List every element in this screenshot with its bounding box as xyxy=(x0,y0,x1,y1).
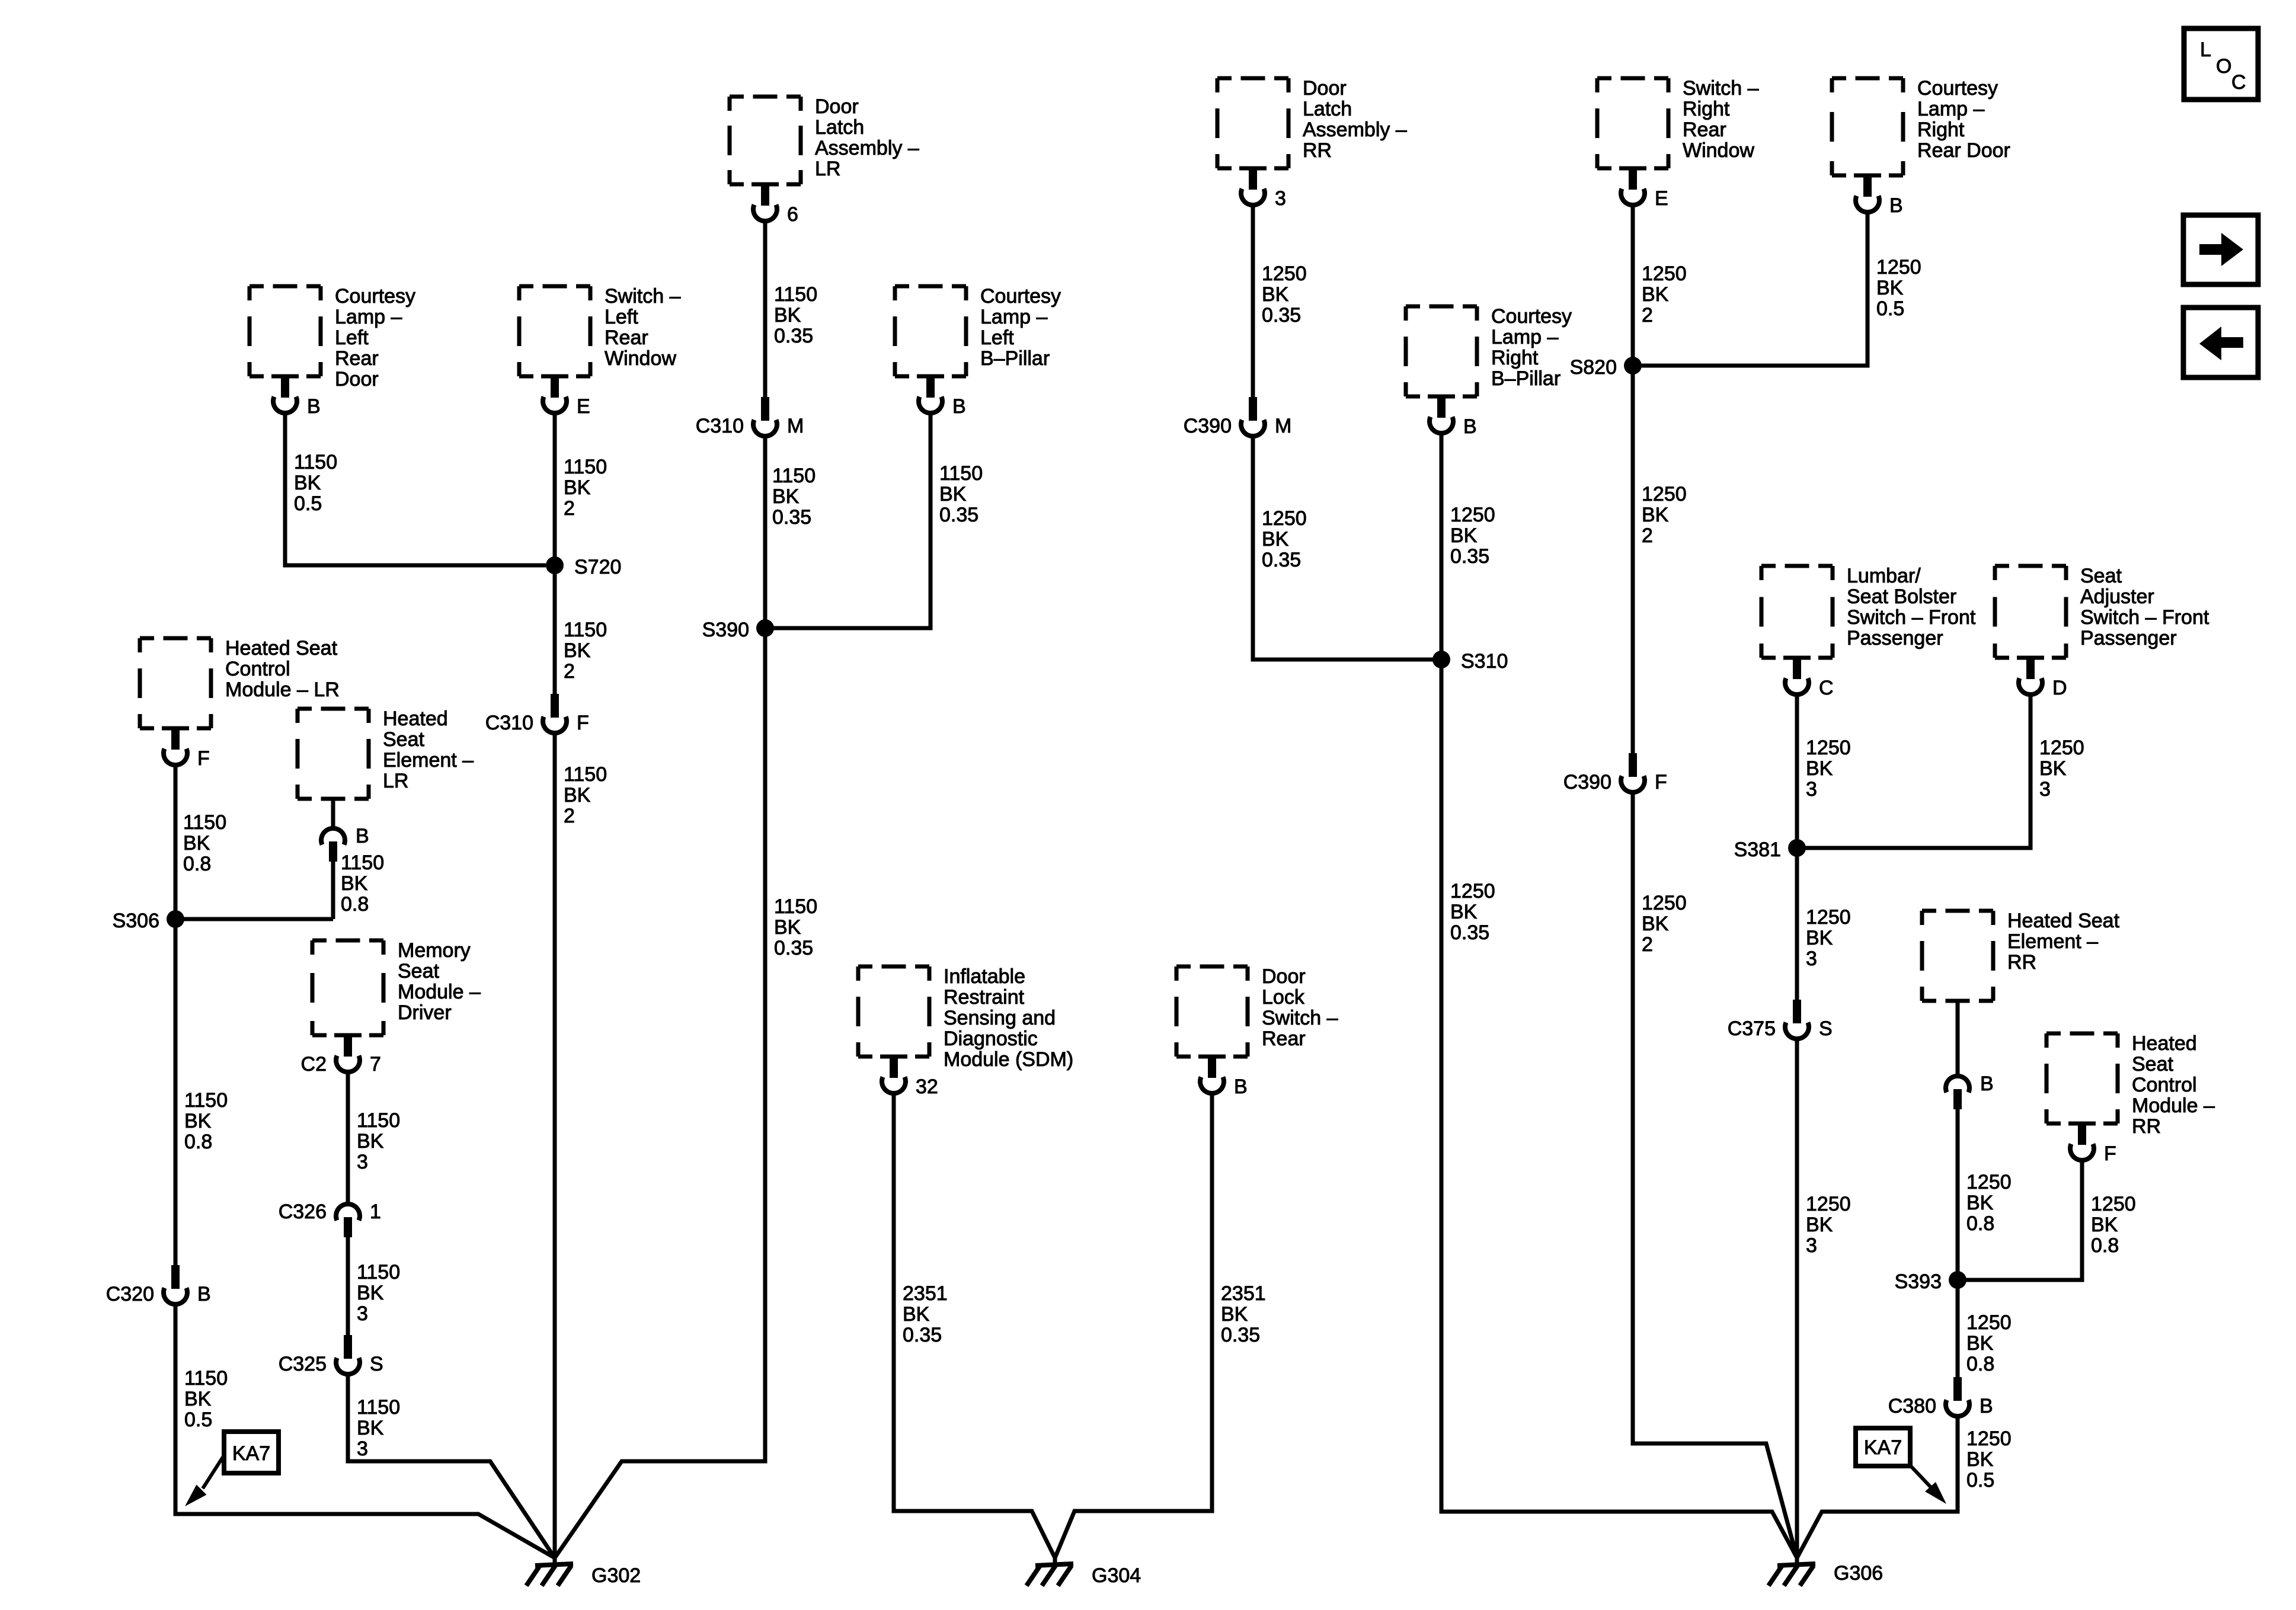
legend box LOC xyxy=(2184,28,2258,100)
component box: Seat Adjuster Switch - Front Passenger xyxy=(1995,565,2209,658)
svg-text:7: 7 xyxy=(370,1053,381,1076)
junction S720 xyxy=(546,556,621,578)
svg-text:B: B xyxy=(952,395,966,418)
connector C310 pin M xyxy=(696,397,804,437)
wire label 1150 BK 3 (below C326) xyxy=(357,1261,400,1325)
wire label 1150 BK 0.5 (left rear door lamp) xyxy=(294,451,337,515)
wire label 1250 BK 0.35 (right B-pillar lamp) xyxy=(1450,504,1495,568)
svg-text:L: L xyxy=(2200,39,2211,61)
component box: Door Lock Switch - Rear xyxy=(1176,965,1338,1057)
svg-text:F: F xyxy=(2104,1142,2116,1165)
wire: C375 S to G306 ground xyxy=(1795,1040,1799,1565)
wire: Seat Adjuster D to S381 xyxy=(1797,694,2030,848)
svg-text:C375: C375 xyxy=(1728,1017,1776,1040)
wire label 1150 BK 2 (above S720) xyxy=(564,456,607,520)
wire: C310 M to S390 xyxy=(763,437,768,628)
svg-text:B: B xyxy=(1463,415,1477,438)
wire: S381 to C375 S xyxy=(1795,848,1799,1000)
connector pin E of Switch - Right Rear Window xyxy=(1619,167,1668,210)
wire label 1150 BK 2 (below S720) xyxy=(564,619,607,683)
wire label 1250 BK 0.5 (right rear door lamp) xyxy=(1876,256,1921,320)
svg-text:S393: S393 xyxy=(1895,1270,1942,1293)
connector C310 pin F xyxy=(485,694,589,734)
svg-text:32: 32 xyxy=(916,1076,938,1098)
connector pin D of Seat Adjuster Switch xyxy=(2017,656,2067,700)
wire label 1250 BK 3 (below C375) xyxy=(1806,1193,1851,1257)
ground G302 xyxy=(526,1558,641,1587)
connector pin B of Door Lock Switch - Rear xyxy=(1198,1055,1248,1099)
wire: Switch Right Rear Window E to S820 xyxy=(1631,205,1635,366)
svg-text:B: B xyxy=(1980,1073,1994,1095)
wire: C310 F to G302 ground xyxy=(553,734,557,1565)
svg-text:C380: C380 xyxy=(1888,1395,1936,1417)
connector C375 pin S xyxy=(1728,1000,1833,1040)
wire: Door Lock Switch B to G304 xyxy=(1055,1093,1212,1558)
component box: Heated Seat Control Module - RR xyxy=(2046,1032,2215,1138)
connector C325 pin S xyxy=(279,1335,383,1375)
wire: Memory Seat Module C2-7 to C326 xyxy=(346,1072,350,1203)
wire label 1250 BK 2 (below S820) xyxy=(1642,483,1687,547)
svg-text:C390: C390 xyxy=(1563,771,1611,793)
connector pin B of Courtesy Lamp - Left Rear Door xyxy=(271,375,321,418)
wire label 1250 BK 0.35 (below S310) xyxy=(1450,880,1495,944)
wire: C326 to C325 xyxy=(346,1236,350,1335)
connector pin B of Heated Seat Element - LR xyxy=(321,825,369,862)
component box: Heated Seat Element - RR xyxy=(1922,910,2120,1001)
wire label 1150 BK 0.35 (below C310 M) xyxy=(772,465,816,529)
wire: C390 F to G306 xyxy=(1633,793,1797,1558)
junction S390 xyxy=(702,619,774,641)
wire label 1150 BK 0.35 (door latch LR) xyxy=(774,283,817,347)
component box: Door Latch Assembly - LR xyxy=(730,95,919,184)
svg-text:S: S xyxy=(1819,1017,1833,1040)
wire: S390 down to G302 xyxy=(555,628,765,1558)
svg-text:B: B xyxy=(1889,194,1903,217)
connector pin B of Courtesy Lamp - Left B-Pillar xyxy=(917,375,966,418)
legend box: arrow right xyxy=(2183,215,2258,284)
component box: Lumbar/Seat Bolster Switch - Front Passenger xyxy=(1761,565,1976,658)
junction S381 xyxy=(1734,838,1806,861)
wire label 1250 BK 0.8 (HSE RR) xyxy=(1966,1171,2012,1235)
junction S820 xyxy=(1570,356,1642,379)
wire: S390 to Courtesy Lamp Left B-Pillar B xyxy=(765,413,930,628)
wire: S310 down to G306 xyxy=(1441,660,1797,1558)
net reference KA7 (right, to G306 wire) xyxy=(1856,1428,1946,1504)
wire: S393 to C380 B xyxy=(1956,1280,1960,1377)
svg-text:B: B xyxy=(307,395,321,418)
svg-text:S310: S310 xyxy=(1461,650,1508,673)
svg-text:E: E xyxy=(577,395,590,418)
wire label 1150 BK 0.8 (HSE LR) xyxy=(341,852,384,916)
wire label 1250 BK 2 (above S820) xyxy=(1642,263,1687,327)
component box: Courtesy Lamp - Right Rear Door xyxy=(1832,77,2010,175)
connector pin 3 of Door Latch Assembly - RR xyxy=(1239,167,1286,210)
component box: Heated Seat Control Module - LR xyxy=(140,637,340,728)
connector pin F of Heated Seat Control Module - LR xyxy=(162,726,210,770)
wire: C390 M to S310 xyxy=(1253,437,1441,660)
component box: Courtesy Lamp - Right B-Pillar xyxy=(1406,305,1572,396)
svg-text:S390: S390 xyxy=(702,619,749,641)
component box: Heated Seat Element - LR xyxy=(298,708,474,799)
svg-text:G304: G304 xyxy=(1092,1564,1141,1587)
svg-text:O: O xyxy=(2216,55,2231,78)
wire: Courtesy Lamp Right Rear Door B to S820 xyxy=(1633,212,1868,366)
wire: C320 to KA7 corner and G302 xyxy=(175,1304,555,1558)
wire: C325 to G302 xyxy=(348,1375,555,1558)
wire label 2351 BK 0.35 (SDM) xyxy=(903,1282,948,1346)
connector pin F of Heated Seat Control Module - RR xyxy=(2068,1122,2116,1166)
wire label 1250 BK 0.35 (below C390 M) xyxy=(1262,507,1307,571)
legend box: arrow left xyxy=(2183,308,2258,377)
wire: C380 B to G306 xyxy=(1797,1417,1958,1558)
svg-text:KA7: KA7 xyxy=(1864,1436,1902,1459)
junction S310 xyxy=(1432,650,1508,673)
svg-text:E: E xyxy=(1655,187,1668,210)
svg-text:F: F xyxy=(1655,771,1667,793)
junction S306 xyxy=(113,910,184,932)
wire label 1250 BK 2 (below C390 F) xyxy=(1642,892,1687,956)
svg-text:KA7: KA7 xyxy=(232,1442,270,1465)
component box: Switch - Left Rear Window xyxy=(519,285,681,376)
svg-text:D: D xyxy=(2052,677,2067,699)
svg-text:B: B xyxy=(1980,1395,1993,1417)
component box: Memory Seat Module - Driver xyxy=(312,939,481,1035)
svg-text:C2: C2 xyxy=(301,1053,327,1076)
wire: SDM 32 to G304 xyxy=(894,1093,1055,1558)
connector C326 pin 1 xyxy=(279,1201,381,1237)
wire label 1250 BK 0.8 (below S393) xyxy=(1966,1311,2012,1375)
svg-text:6: 6 xyxy=(787,203,798,226)
connector C390 pin F xyxy=(1563,753,1667,793)
svg-text:S: S xyxy=(370,1353,383,1375)
svg-text:F: F xyxy=(577,712,589,734)
wire label 1150 BK 0.35 (left B-pillar lamp) xyxy=(939,462,983,526)
wire label 1150 BK 3 (below C325) xyxy=(357,1396,400,1460)
ground G306 xyxy=(1769,1558,1883,1586)
component box: Switch - Right Rear Window xyxy=(1597,77,1759,168)
component box: Courtesy Lamp - Left Rear Door xyxy=(250,285,415,391)
wire label 1250 BK 0.5 (below C380) xyxy=(1966,1427,2012,1491)
net reference KA7 (left, to G302 wire) xyxy=(185,1432,279,1506)
connector C380 pin B xyxy=(1888,1377,1993,1417)
wire: Lumbar Switch C to S381 xyxy=(1795,694,1799,848)
svg-text:3: 3 xyxy=(1275,187,1286,210)
connector pin B of Courtesy Lamp - Right B-Pillar xyxy=(1428,395,1477,438)
wire: S306 to C320 xyxy=(174,919,178,1265)
svg-text:F: F xyxy=(197,747,210,770)
svg-text:S820: S820 xyxy=(1570,356,1617,379)
connector C2 pin 7 of Memory Seat Module - Driver xyxy=(301,1033,381,1076)
connector pin B of Courtesy Lamp - Right Rear Door xyxy=(1854,174,1903,217)
wire: Courtesy Lamp Right B-Pillar B to S310 xyxy=(1440,433,1444,660)
wire label 1250 BK 0.8 (HSCM RR) xyxy=(2091,1193,2136,1257)
connector C390 pin M xyxy=(1184,397,1292,437)
svg-text:C320: C320 xyxy=(106,1283,154,1305)
connector pin 32 of SDM xyxy=(880,1055,938,1099)
svg-text:B: B xyxy=(197,1283,211,1305)
component box: Inflatable Restraint Sensing and Diagnostic Module (SDM) xyxy=(858,965,1073,1071)
svg-text:C: C xyxy=(1819,677,1834,699)
svg-text:C310: C310 xyxy=(485,712,533,734)
wire: Heated Seat Element LR B to S306 xyxy=(331,799,335,919)
connector pin C of Lumbar/Seat Bolster Switch xyxy=(1783,656,1834,700)
wire label 1150 BK 0.35 (below S390) xyxy=(774,895,817,959)
svg-text:M: M xyxy=(787,415,804,437)
wire label 1250 BK 0.35 (door latch RR) xyxy=(1262,263,1307,327)
component box: Door Latch Assembly - RR xyxy=(1217,77,1407,168)
wire label 1250 BK 3 (seat adjuster) xyxy=(2039,737,2084,801)
svg-text:B: B xyxy=(356,825,369,847)
svg-text:C326: C326 xyxy=(279,1201,327,1223)
connector C320 pin B xyxy=(106,1265,211,1305)
wire label 1150 BK 3 (below C2 7) xyxy=(357,1109,400,1173)
wire: Heated Seat Control Module RR F to S393 xyxy=(1958,1160,2082,1280)
connector pin 6 of Door Latch Assembly - LR xyxy=(752,183,798,226)
wire: Heated Seat Control Module LR F to S306 xyxy=(174,765,178,919)
wire label 1150 BK 0.8 (below S306) xyxy=(184,1089,228,1153)
wire: Heated Seat Element RR B to S393 xyxy=(1956,1001,1960,1280)
wire: Courtesy Lamp Left Rear Door B to S720 xyxy=(285,413,546,565)
svg-text:B: B xyxy=(1234,1076,1248,1098)
wire: S720 to C310 F xyxy=(553,565,557,695)
wire label 1150 BK 0.5 (below C320) xyxy=(184,1367,228,1431)
component box: Courtesy Lamp - Left B-Pillar xyxy=(895,285,1061,376)
svg-text:S720: S720 xyxy=(574,556,621,578)
wire: Door Latch LR pin 6 to C310 M xyxy=(763,221,768,397)
svg-text:M: M xyxy=(1275,415,1291,437)
wire: S306 horizontal xyxy=(175,917,333,921)
wire: S820 to C390 F xyxy=(1631,366,1635,753)
connector pin E of Switch - Left Rear Window xyxy=(541,375,590,418)
svg-text:S306: S306 xyxy=(113,910,159,932)
wire label 1250 BK 3 (below S381) xyxy=(1806,906,1851,970)
svg-text:S381: S381 xyxy=(1734,838,1781,861)
junction S393 xyxy=(1895,1270,1966,1293)
svg-text:C325: C325 xyxy=(279,1353,327,1375)
wire: Door Latch RR pin 3 to C390 M xyxy=(1251,205,1255,397)
svg-text:G302: G302 xyxy=(591,1564,641,1587)
wire label 2351 BK 0.35 (door lock switch) xyxy=(1221,1282,1266,1346)
wire: Switch Left Rear Window E to S720 xyxy=(553,413,557,565)
svg-text:C310: C310 xyxy=(696,415,744,437)
svg-text:C390: C390 xyxy=(1184,415,1232,437)
wire label 1250 BK 3 (lumbar switch) xyxy=(1806,737,1851,801)
svg-text:C: C xyxy=(2231,71,2246,94)
ground G304 xyxy=(1027,1558,1141,1587)
connector pin B of Heated Seat Element - RR xyxy=(1946,1073,1994,1109)
svg-text:1: 1 xyxy=(370,1201,381,1223)
svg-text:G306: G306 xyxy=(1834,1562,1883,1585)
wire label 1150 BK 0.8 (HSCM LR) xyxy=(183,811,226,875)
wire label 1150 BK 2 (below C310 F) xyxy=(564,763,607,827)
